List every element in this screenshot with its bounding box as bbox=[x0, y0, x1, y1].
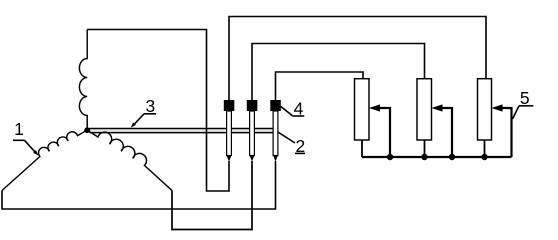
svg-text:1: 1 bbox=[14, 119, 24, 139]
label 3 (shaft) bbox=[131, 96, 156, 128]
brush 2 (black block) bbox=[247, 100, 257, 111]
shaft 3 (double line with light interior) bbox=[90, 129, 274, 133]
label 1 (rotor winding) bbox=[13, 119, 38, 156]
junction dot (R2/bus) bbox=[421, 154, 427, 160]
winding C (lower-right phase coil) bbox=[88, 131, 172, 191]
wire: brush 1 to rheostat 3 (outer top run) bbox=[229, 17, 486, 101]
rheostat R3 wiper arrow bbox=[492, 104, 512, 157]
rheostat R3 body bbox=[478, 79, 492, 140]
rheostat R1 bottom stub bbox=[361, 140, 363, 157]
slip ring bar 1 bbox=[227, 111, 232, 162]
label 4 (brushes) bbox=[281, 99, 305, 119]
junction dot (wiper1/bus) bbox=[387, 154, 393, 160]
wire: brush 2 to rheostat 2 (middle top run) bbox=[252, 44, 425, 101]
junction dot (R3/bus) bbox=[481, 154, 487, 160]
rheostat R1 wiper arrow bbox=[369, 104, 390, 157]
winding A (vertical phase coil) bbox=[79, 30, 87, 128]
rheostat R2 bottom stub bbox=[424, 140, 426, 157]
winding B (lower-left phase coil) bbox=[2, 131, 87, 191]
rheostat R2 body bbox=[417, 79, 432, 140]
rheostat R2 wiper arrow bbox=[432, 104, 453, 157]
star-point junction dot bbox=[84, 127, 90, 133]
wire: brush 3 to rheostat 1 (inner top run) bbox=[276, 72, 364, 100]
rheostat R1 body bbox=[355, 79, 370, 140]
brush 1 (black block) bbox=[224, 100, 235, 111]
wire: winding A top to slip-ring 1 lead (left loop) bbox=[87, 30, 229, 192]
wire: winding C end to slip-ring 2 lead bbox=[172, 161, 252, 230]
label 2 (slip rings) bbox=[278, 132, 305, 156]
rheostat R3 bottom stub bbox=[484, 140, 486, 158]
slip ring bar 2 bbox=[250, 111, 255, 162]
label 5 (rheostats) bbox=[513, 88, 534, 119]
slip ring bar 3 bbox=[273, 111, 278, 162]
brush 3 (black block) bbox=[270, 100, 281, 111]
wire: winding B end along bottom to slip-ring 3 lead bbox=[2, 161, 276, 209]
junction dot (wiper2/bus) bbox=[449, 154, 455, 160]
common bus of rheostats bbox=[362, 156, 512, 158]
